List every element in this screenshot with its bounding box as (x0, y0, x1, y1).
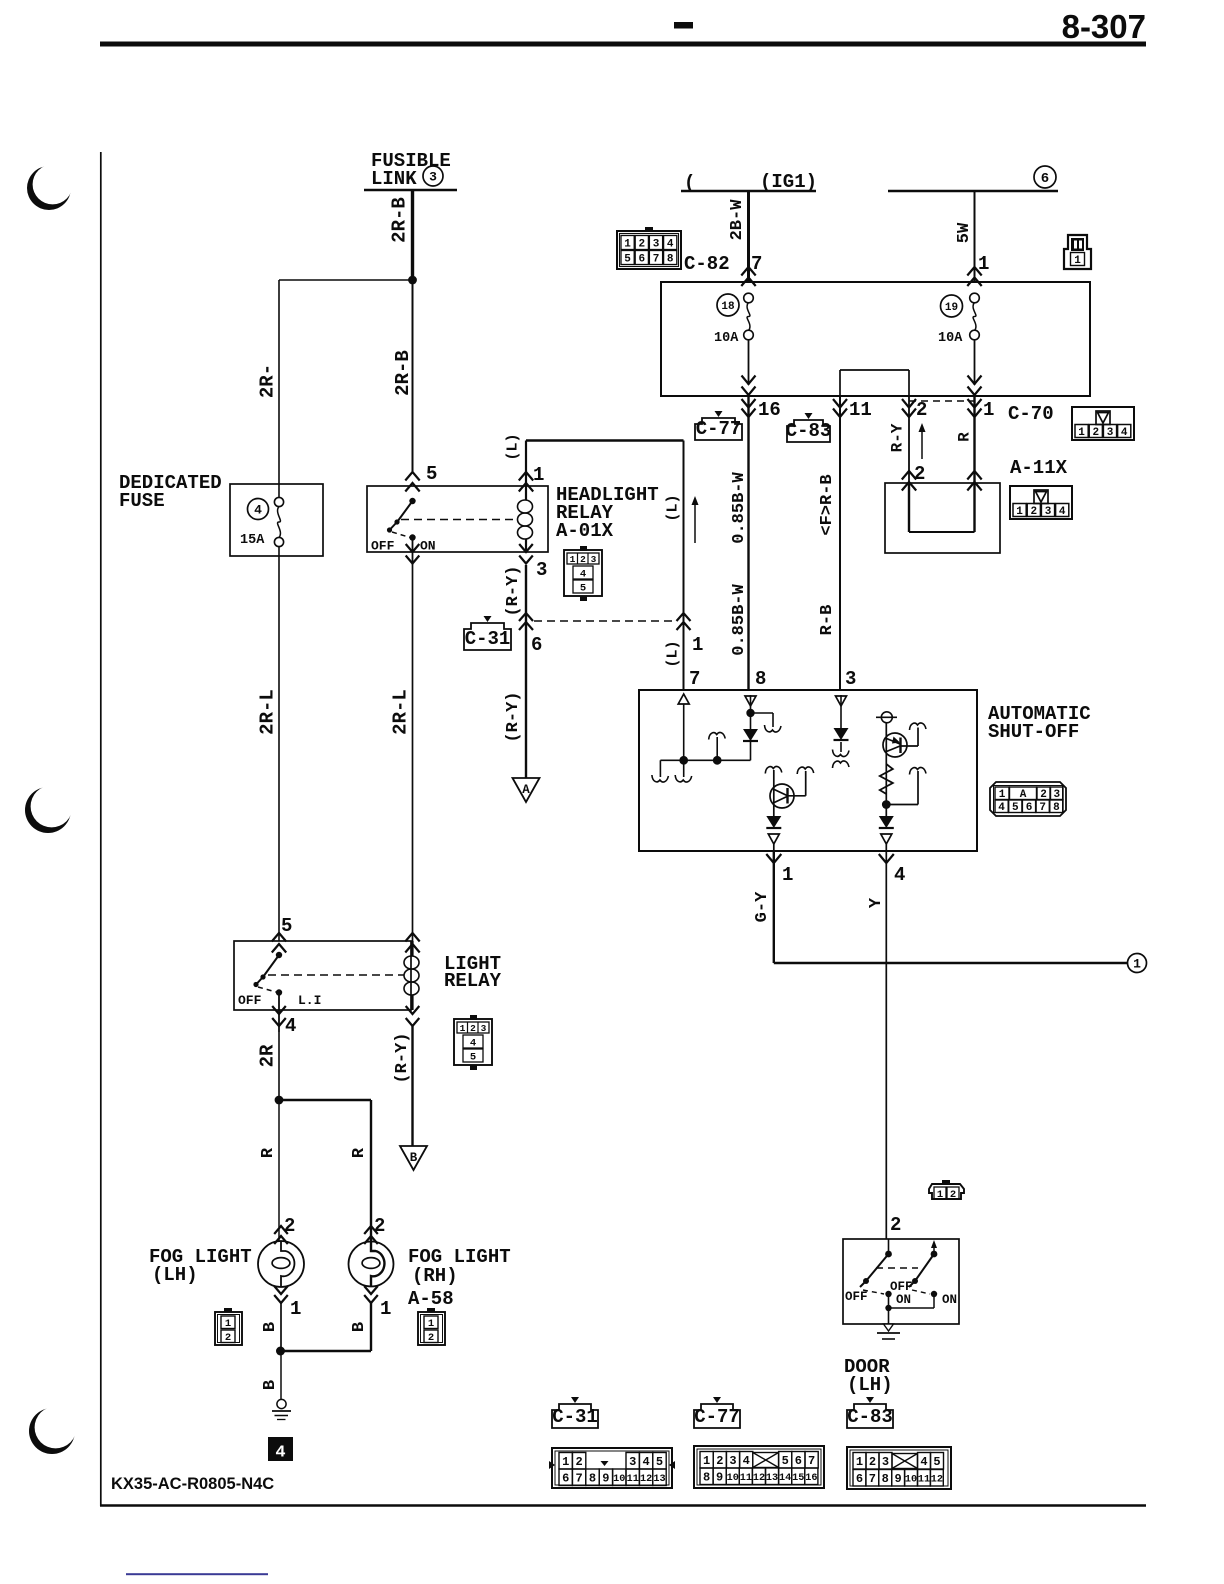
svg-text:3: 3 (629, 1455, 636, 1469)
svg-text:18: 18 (721, 301, 735, 313)
svg-text:4: 4 (642, 1455, 649, 1469)
svg-text:7: 7 (575, 1472, 582, 1486)
svg-text:C-83: C-83 (786, 420, 832, 442)
svg-text:1: 1 (1078, 427, 1085, 439)
svg-text:1: 1 (533, 464, 544, 486)
svg-text:2: 2 (225, 1332, 231, 1344)
svg-text:0.85B-W: 0.85B-W (730, 472, 749, 544)
svg-text:2: 2 (916, 399, 927, 421)
svg-text:1: 1 (983, 399, 994, 421)
svg-text:B: B (261, 1380, 280, 1390)
svg-text:(LH): (LH) (847, 1374, 893, 1396)
svg-text:3: 3 (845, 668, 856, 690)
svg-text:11: 11 (740, 1473, 752, 1484)
svg-text:4: 4 (1059, 506, 1066, 518)
svg-text:2: 2 (575, 1455, 582, 1469)
svg-text:1: 1 (856, 1455, 863, 1469)
svg-text:4: 4 (580, 568, 586, 580)
svg-text:9: 9 (716, 1471, 723, 1485)
svg-text:11: 11 (918, 1474, 930, 1485)
svg-text:7: 7 (653, 253, 660, 265)
svg-text:2: 2 (580, 554, 586, 565)
svg-text:A-01X: A-01X (556, 520, 614, 542)
svg-text:6: 6 (562, 1472, 569, 1486)
svg-text:4: 4 (275, 1444, 285, 1463)
svg-text:1: 1 (1074, 255, 1081, 267)
svg-text:(R-Y): (R-Y) (504, 691, 523, 742)
svg-text:2: 2 (950, 1189, 956, 1201)
svg-text:10A: 10A (714, 331, 739, 346)
svg-text:2: 2 (1030, 506, 1037, 518)
svg-text:4: 4 (894, 864, 905, 886)
svg-text:11: 11 (627, 1474, 639, 1485)
svg-text:C-31: C-31 (465, 628, 511, 650)
svg-text:7: 7 (808, 1454, 815, 1468)
svg-text:Y: Y (867, 897, 886, 908)
svg-text:A: A (522, 783, 530, 797)
svg-text:1: 1 (703, 1454, 710, 1468)
svg-text:1: 1 (1016, 506, 1023, 518)
svg-text:1: 1 (290, 1298, 301, 1320)
svg-text:6: 6 (795, 1454, 802, 1468)
svg-text:5: 5 (580, 582, 586, 594)
svg-text:(R-Y): (R-Y) (504, 565, 523, 616)
svg-text:1: 1 (428, 1318, 434, 1330)
svg-text:B: B (261, 1322, 280, 1332)
svg-text:4: 4 (285, 1015, 296, 1037)
svg-text:G-Y: G-Y (753, 891, 772, 922)
svg-text:6: 6 (1026, 802, 1033, 814)
svg-text:1: 1 (380, 1298, 391, 1320)
svg-text:A-11X: A-11X (1010, 457, 1068, 479)
svg-text:R: R (259, 1147, 278, 1158)
svg-text:4: 4 (743, 1454, 750, 1468)
svg-text:3: 3 (882, 1455, 889, 1469)
svg-text:(RH): (RH) (412, 1265, 458, 1287)
svg-text:OFF: OFF (238, 993, 262, 1008)
svg-text:8: 8 (667, 253, 674, 265)
svg-text:2R: 2R (257, 1044, 279, 1067)
svg-text:6: 6 (531, 634, 542, 656)
svg-text:12: 12 (931, 1474, 943, 1485)
svg-text:5: 5 (1012, 802, 1019, 814)
svg-text:(L): (L) (504, 433, 521, 460)
svg-text:4: 4 (1121, 427, 1128, 439)
svg-text:10: 10 (613, 1474, 625, 1485)
svg-text:4: 4 (920, 1455, 927, 1469)
svg-text:SHUT-OFF: SHUT-OFF (988, 721, 1079, 743)
svg-text:ON: ON (942, 1293, 957, 1307)
svg-text:2: 2 (914, 463, 925, 485)
svg-text:9: 9 (895, 1472, 902, 1486)
svg-text:2: 2 (1092, 427, 1099, 439)
svg-text:1: 1 (624, 238, 631, 250)
svg-text:4: 4 (667, 238, 674, 250)
svg-text:C-83: C-83 (847, 1406, 893, 1428)
svg-text:16: 16 (758, 399, 781, 421)
svg-text:2: 2 (716, 1454, 723, 1468)
svg-text:3: 3 (429, 170, 437, 185)
svg-text:(LH): (LH) (152, 1264, 198, 1286)
svg-text:(R-Y): (R-Y) (393, 1032, 412, 1083)
svg-text:6: 6 (856, 1472, 863, 1486)
svg-text:1: 1 (225, 1318, 231, 1330)
svg-text:10A: 10A (938, 331, 963, 346)
svg-text:R: R (350, 1147, 369, 1158)
svg-text:C-77: C-77 (694, 1406, 740, 1428)
svg-text:A-58: A-58 (408, 1288, 454, 1310)
svg-text:1: 1 (782, 864, 793, 886)
svg-text:3: 3 (653, 238, 660, 250)
svg-text:7: 7 (869, 1472, 876, 1486)
svg-text:5: 5 (426, 463, 437, 485)
svg-text:3: 3 (591, 554, 597, 565)
svg-text:0.85B-W: 0.85B-W (730, 584, 749, 656)
svg-text:6: 6 (1041, 171, 1049, 187)
svg-text:3: 3 (729, 1454, 736, 1468)
svg-text:C-70: C-70 (1008, 403, 1054, 425)
svg-text:R: R (956, 432, 974, 442)
svg-text:10: 10 (905, 1474, 917, 1485)
svg-text:9: 9 (602, 1472, 609, 1486)
svg-text:C-31: C-31 (552, 1406, 598, 1428)
svg-text:1: 1 (562, 1455, 569, 1469)
svg-text:2: 2 (374, 1215, 385, 1237)
svg-text:2R-B: 2R-B (389, 197, 411, 243)
svg-text:8: 8 (1053, 802, 1060, 814)
svg-text:1: 1 (937, 1189, 943, 1201)
svg-text:13: 13 (653, 1474, 665, 1485)
svg-text:LINK: LINK (371, 168, 417, 190)
svg-text:5: 5 (624, 253, 631, 265)
svg-text:OFF: OFF (890, 1280, 913, 1294)
svg-text:2: 2 (284, 1215, 295, 1237)
svg-text:16: 16 (805, 1473, 817, 1484)
svg-text:5: 5 (281, 915, 292, 937)
svg-text:ON: ON (896, 1293, 911, 1307)
svg-text:2R-L: 2R-L (257, 689, 279, 735)
svg-text:5: 5 (470, 1051, 476, 1063)
svg-text:8: 8 (589, 1472, 596, 1486)
svg-text:C-77: C-77 (696, 418, 742, 440)
svg-text:<F>R-B: <F>R-B (818, 474, 837, 535)
svg-text:5: 5 (782, 1454, 789, 1468)
svg-text:19: 19 (945, 302, 958, 314)
svg-text:4: 4 (470, 1037, 476, 1049)
svg-text:R-B: R-B (818, 605, 837, 636)
svg-text:(L): (L) (664, 640, 681, 667)
svg-text:7: 7 (689, 668, 700, 690)
svg-text:15A: 15A (240, 533, 265, 548)
svg-text:8-307: 8-307 (1062, 8, 1146, 45)
svg-text:B: B (410, 1151, 418, 1165)
svg-text:11: 11 (849, 399, 872, 421)
svg-text:8: 8 (703, 1471, 710, 1485)
svg-text:1: 1 (692, 634, 703, 656)
svg-text:3: 3 (536, 559, 547, 581)
svg-text:2R-: 2R- (257, 364, 279, 398)
svg-text:RELAY: RELAY (444, 970, 502, 992)
svg-text:12: 12 (640, 1474, 652, 1485)
svg-text:4: 4 (254, 503, 262, 518)
svg-text:3: 3 (1045, 506, 1052, 518)
svg-text:L.I: L.I (298, 993, 321, 1008)
svg-text:8: 8 (882, 1472, 889, 1486)
svg-text:1: 1 (1133, 957, 1141, 972)
svg-text:5W: 5W (955, 222, 974, 243)
svg-text:5: 5 (933, 1455, 940, 1469)
svg-text:OFF: OFF (371, 539, 395, 554)
svg-text:KX35-AC-R0805-N4C: KX35-AC-R0805-N4C (111, 1475, 274, 1493)
svg-text:ON: ON (420, 539, 436, 554)
svg-text:4: 4 (998, 802, 1005, 814)
svg-text:C-82: C-82 (684, 253, 730, 275)
svg-text:R-Y: R-Y (889, 423, 907, 452)
svg-text:2: 2 (638, 238, 645, 250)
svg-text:10: 10 (727, 1473, 739, 1484)
svg-text:3: 3 (481, 1023, 487, 1034)
svg-text:(L): (L) (664, 494, 681, 521)
svg-text:2: 2 (428, 1332, 434, 1344)
svg-text:1: 1 (570, 554, 576, 565)
svg-text:2: 2 (869, 1455, 876, 1469)
svg-text:2: 2 (890, 1214, 901, 1236)
svg-text:2B-W: 2B-W (728, 199, 747, 241)
svg-text:2R-L: 2R-L (390, 689, 412, 735)
svg-text:3: 3 (1107, 427, 1114, 439)
svg-text:6: 6 (638, 253, 645, 265)
svg-text:7: 7 (1039, 802, 1046, 814)
svg-text:15: 15 (792, 1473, 804, 1484)
svg-text:FUSE: FUSE (119, 490, 165, 512)
svg-text:5: 5 (656, 1455, 663, 1469)
svg-text:2R-B: 2R-B (392, 350, 414, 396)
svg-text:8: 8 (755, 668, 766, 690)
svg-text:13: 13 (766, 1473, 778, 1484)
svg-text:B: B (350, 1322, 369, 1332)
svg-text:OFF: OFF (845, 1290, 868, 1304)
svg-text:14: 14 (779, 1473, 791, 1484)
svg-text:12: 12 (753, 1473, 765, 1484)
svg-text:2: 2 (470, 1023, 476, 1034)
svg-text:1: 1 (460, 1023, 466, 1034)
